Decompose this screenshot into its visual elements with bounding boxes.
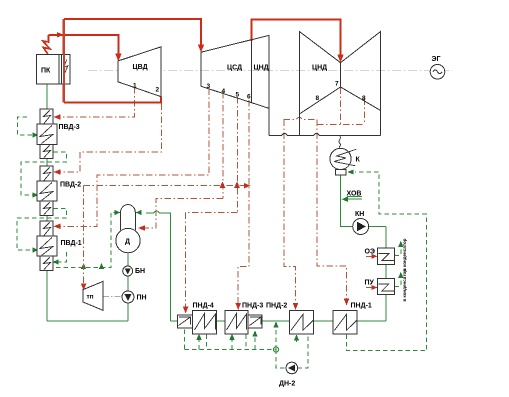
red extraction dash-dot lines [60, 87, 373, 308]
wire steam stub to ПУ [366, 287, 373, 289]
arrow extraction into ПНД-1 [344, 299, 350, 306]
svg-text:ЭГ: ЭГ [432, 56, 441, 63]
arrow drain into ПВД-3 [33, 132, 39, 137]
svg-text:6: 6 [247, 94, 251, 101]
heater ПНД-4 [177, 315, 192, 328]
wire ПВД-3 inlet drain stub [18, 117, 34, 135]
wire main condensate line ПНД row [170, 320, 385, 322]
wire feedwater bottom run to ПН [47, 320, 128, 322]
arrow drain into ПВД-2 [33, 192, 39, 197]
arrow steam into deaerator [138, 225, 145, 231]
red main steam lines [43, 19, 341, 102]
wire drain ПВД-3 cascade to ПВД-2 [21, 152, 67, 195]
ЦНД admission line [340, 63, 342, 87]
wire ПНД-2 vent arrow [296, 339, 298, 342]
junction drain circle [273, 347, 278, 352]
svg-text:ПВД-3: ПВД-3 [59, 124, 80, 131]
arrow condensate into deaerator right [136, 210, 142, 215]
svg-text:2: 2 [156, 87, 160, 94]
arrow ДН-2 into main line [273, 322, 278, 328]
wire condensate from ОЭ ПУ string [385, 227, 387, 322]
arrow reheat into ЦСД [198, 45, 204, 53]
arrow drains into hotwell [347, 170, 353, 175]
wire ДН-2 discharge riser [275, 327, 277, 350]
wire extraction 1 to ПВД-3 [60, 87, 135, 117]
wire ПНД-3 vent arrow [231, 339, 233, 350]
svg-text:БН: БН [135, 268, 145, 275]
svg-text:ЦСД: ЦСД [227, 65, 242, 72]
heater ПВД-2 [40, 166, 53, 181]
turbine ЦВД [118, 47, 161, 97]
heater ПВД-1 [40, 221, 53, 236]
wire ПВД-1 drain cooler loop [57, 252, 67, 262]
svg-text:5: 5 [236, 92, 240, 99]
wire ПНД-3 drain down [245, 335, 247, 350]
wire feedwater through ПВД column [46, 109, 48, 321]
wire extraction 4 to deaerator [144, 198, 224, 228]
svg-text:КН: КН [355, 211, 364, 218]
heater ПНД-1 [333, 311, 357, 334]
wire extraction to ПНД-2 [284, 119, 295, 305]
arrow steam into ТП [81, 284, 87, 291]
wire ПНД-2 drain to ДН-2 [298, 335, 308, 369]
wire ПВД-1 drain to deaerator [56, 213, 117, 268]
wire extraction 7 stub [340, 88, 342, 125]
green dashed drains [17, 117, 426, 368]
turbine drive ТП [83, 281, 103, 310]
wire extraction 4 down [222, 92, 224, 198]
svg-text:3: 3 [207, 83, 211, 90]
deaerator tank dome [121, 205, 136, 230]
wire ПН suction string Д-БН-ПН [127, 253, 129, 321]
arrow ОЭ vent [398, 241, 403, 247]
boiler steam zigzag riser [43, 35, 50, 54]
svg-text:ПВД-2: ПВД-2 [60, 182, 81, 189]
arrow steam into ПУ [371, 285, 377, 290]
turbine ЦСД-ЦНД block [201, 35, 269, 135]
shaft axis ТП-ПН [103, 296, 122, 298]
wire steam to ТП [83, 186, 85, 285]
pump КН [353, 219, 369, 235]
exhaust duct bottom [269, 133, 300, 135]
deaerator column Д [116, 228, 140, 252]
arrow extraction into ПВД-1 [53, 224, 60, 230]
reheater zigzag symbol [63, 60, 67, 75]
boiler reheater section [59, 55, 70, 84]
svg-text:ОЭ: ОЭ [365, 249, 375, 256]
wire ЦНД manifold [284, 117, 365, 124]
heater ПНД-3 [225, 311, 248, 334]
arrow header end [244, 183, 251, 189]
wire extraction 8 right stub [363, 99, 365, 125]
condenser cooling zigzag [334, 149, 356, 166]
wire condensate riser to deaerator with crossing bump [146, 211, 170, 321]
wire drains collector to junction [185, 349, 276, 351]
pump ПН [122, 291, 134, 303]
svg-text:тп: тп [87, 294, 94, 301]
wire КН discharge [369, 226, 386, 228]
svg-text:ПНД-3: ПНД-3 [242, 303, 263, 310]
wire ПНД-4 drain cooler loop [185, 330, 199, 350]
svg-text:ЦНД: ЦНД [312, 65, 327, 72]
wire ОЭ vent to condenser [395, 246, 401, 256]
svg-text:ПНД-2: ПНД-2 [266, 303, 287, 310]
svg-text:ПУ: ПУ [365, 280, 375, 287]
wire reheat line over boiler (redraw) [63, 19, 65, 102]
arrow drain junction 1 [81, 263, 86, 269]
boiler ПК [36, 55, 59, 84]
arrow ПНД-3 vent [229, 334, 234, 340]
wire extraction 5 down [237, 97, 239, 213]
heater boxes [37, 109, 395, 334]
arrow ПНД-4 vent [196, 334, 201, 340]
svg-text:К: К [356, 157, 361, 164]
arrow drain into ПВД-1 cooler [53, 259, 59, 264]
condenser hotwell [336, 170, 347, 175]
wire reheat through boiler up [62, 19, 64, 102]
arrow drain junction 2 [99, 263, 104, 269]
svg-text:ЦВД: ЦВД [133, 64, 148, 71]
wire condenser hotwell to КН [341, 175, 353, 227]
wire steam stub to ОЭ [366, 255, 373, 257]
wire ПНД-1 drain to condenser [347, 172, 427, 351]
turbine ЦНД double flow [299, 32, 380, 136]
arrow extraction into ПВД-2 [53, 169, 60, 175]
wire extraction 6 to ПНД-3 [238, 100, 249, 305]
svg-text:ПН: ПН [137, 295, 147, 302]
pump ДН-2 [286, 362, 298, 374]
arrow crossover into ЦНД [337, 55, 343, 63]
svg-text:ПК: ПК [41, 68, 51, 75]
svg-text:1: 1 [133, 83, 137, 90]
svg-text:ПНД-4: ПНД-4 [193, 303, 214, 310]
arrow extraction into ПВД-3 [53, 114, 60, 120]
arrow drain into deaerator left [114, 210, 120, 215]
wire extraction header [84, 185, 249, 187]
wire drain ПВД-2 cascade to ПВД-1 [17, 209, 67, 251]
pump БН [123, 266, 133, 276]
wire ХОВ stub [348, 198, 362, 200]
arrow extraction into ПНД-4 [183, 307, 189, 314]
svg-text:в конденсатор: в конденсатор [402, 269, 407, 302]
svg-text:8: 8 [362, 95, 366, 102]
wire extraction 3 to ПВД-1 [60, 89, 209, 227]
arrow header junction 1 [220, 181, 226, 188]
arrow header junction 2 [234, 181, 240, 188]
heater ПНД-2 [289, 311, 313, 334]
ЦНД inner exhaust V [299, 87, 380, 114]
wire crossover ЦНД1 to ЦНД2 [252, 19, 341, 58]
svg-text:8: 8 [316, 95, 320, 102]
arrow main steam direction [57, 32, 64, 37]
condenser К [330, 148, 351, 169]
svg-text:4: 4 [222, 88, 226, 95]
seal cooler ПУ [378, 279, 395, 295]
wire feedwater boiler downcomer [46, 84, 48, 109]
arrow ПУ vent [398, 272, 403, 278]
arrow steam into ОЭ [371, 254, 377, 259]
svg-text:Д: Д [125, 239, 130, 246]
svg-text:в конденсатор: в конденсатор [402, 238, 407, 271]
wire cold reheat from ЦВД [64, 97, 161, 103]
wire hot reheat to ЦСД [64, 19, 201, 49]
arrow ПНД-3 small vent [252, 331, 257, 337]
wire ПНД-4 drain down [206, 335, 208, 350]
arrow extraction into ПНД-2 [293, 303, 299, 310]
condenser neck squiggle [339, 136, 341, 149]
arrow ХОВ into condensate [342, 197, 349, 202]
shaft axis line [88, 69, 452, 71]
ejector cooler ОЭ [378, 248, 395, 264]
wire main steam to ЦВД [48, 35, 118, 58]
black equipment [36, 32, 445, 374]
svg-text:7: 7 [335, 81, 339, 88]
arrow ПНД-2 vent [294, 335, 299, 341]
svg-text:ДН-2: ДН-2 [279, 381, 295, 388]
arrow drain into ПВД-1 [33, 247, 39, 252]
generator ЭГ [430, 65, 445, 80]
wire junction to ДН-2 pump [276, 350, 286, 369]
ХОВ underline [347, 195, 362, 197]
svg-text:ПНД-1: ПНД-1 [351, 303, 372, 310]
svg-text:ЦНД: ЦНД [254, 65, 269, 72]
arrow main steam into ЦВД [115, 54, 121, 62]
arrow extraction into ПНД-3 [235, 303, 241, 310]
svg-text:ПВД-1: ПВД-1 [61, 240, 82, 247]
wire extraction to ПНД-1 [317, 119, 347, 300]
svg-text:ХОВ: ХОВ [347, 191, 362, 198]
ЦСД ЦНД divider [251, 40, 253, 103]
wire ПУ vent to condenser [395, 277, 401, 287]
wire ПНД-3 small box vent [254, 336, 256, 350]
wire extraction 2 to ПВД-2 [60, 104, 161, 173]
heater ПВД-3 [40, 109, 53, 124]
wire extraction 5 to ПНД-4 [186, 213, 238, 308]
